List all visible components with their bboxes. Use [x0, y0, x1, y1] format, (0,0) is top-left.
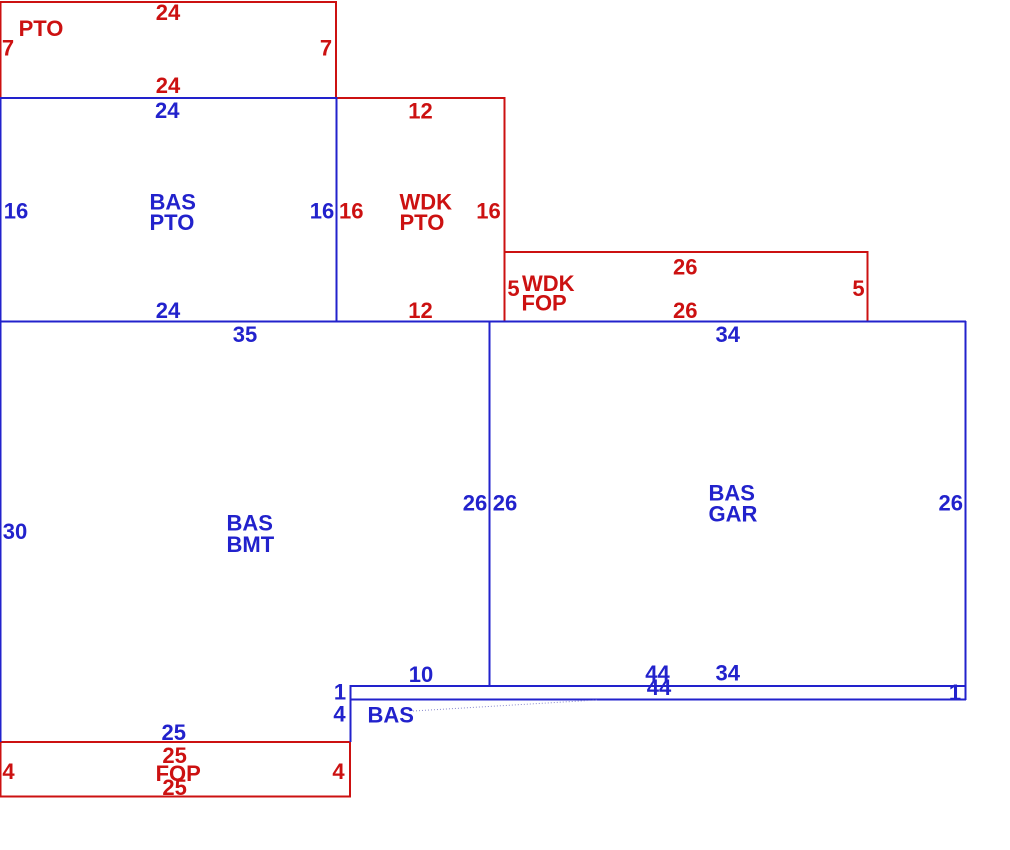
blue outlines	[0, 97, 966, 742]
svg-text:FOP: FOP	[522, 291, 567, 316]
svg-text:PTO: PTO	[400, 210, 445, 235]
svg-text:30: 30	[3, 519, 27, 544]
svg-text:16: 16	[476, 199, 500, 224]
wire sliver top	[350, 685, 966, 687]
svg-text:26: 26	[673, 255, 697, 280]
svg-text:34: 34	[715, 322, 740, 347]
wire BMT/GAR divider	[489, 321, 491, 686]
svg-text:4: 4	[332, 759, 345, 784]
svg-text:7: 7	[320, 36, 332, 61]
svg-text:24: 24	[156, 298, 181, 323]
svg-text:12: 12	[408, 298, 432, 323]
label WDK PTO dims	[339, 99, 501, 324]
svg-text:24: 24	[156, 73, 181, 98]
wire GAR right edge	[965, 321, 967, 700]
svg-text:16: 16	[339, 199, 363, 224]
wire	[1, 742, 351, 797]
svg-text:25: 25	[162, 775, 186, 800]
svg-text:34: 34	[715, 661, 740, 686]
svg-text:7: 7	[2, 36, 14, 61]
wire	[337, 98, 505, 321]
label BAS PTO dims	[4, 98, 334, 323]
wire main horizontal y=321	[0, 321, 966, 323]
wire BAS PTO top	[0, 97, 337, 99]
svg-text:4: 4	[2, 759, 15, 784]
svg-text:25: 25	[162, 720, 186, 745]
wire left edge	[0, 97, 2, 742]
svg-text:24: 24	[155, 98, 180, 123]
wire BAS PTO right	[336, 97, 338, 321]
svg-text:BAS: BAS	[368, 703, 414, 728]
label PTO dims	[2, 0, 332, 98]
svg-text:BMT: BMT	[227, 532, 275, 557]
wire	[505, 252, 868, 321]
area FOP outline (red, bottom-left porch)	[1, 742, 351, 797]
label FOP dims	[2, 743, 345, 800]
area PTO outline (red, top-left patio)	[1, 2, 337, 97]
svg-text:16: 16	[4, 199, 28, 224]
svg-text:44: 44	[647, 675, 672, 700]
svg-text:26: 26	[463, 491, 487, 516]
svg-text:26: 26	[493, 491, 517, 516]
wire sliver bottom	[350, 699, 966, 701]
area WDK FOP outline (red)	[505, 252, 868, 321]
svg-text:24: 24	[156, 0, 181, 25]
wire	[1, 2, 337, 97]
svg-text:35: 35	[233, 322, 257, 347]
label BAS sliver dims	[333, 661, 961, 728]
svg-text:GAR: GAR	[709, 502, 758, 527]
svg-text:5: 5	[852, 276, 864, 301]
svg-text:1: 1	[949, 680, 961, 705]
leader dotted line to BAS sliver	[413, 700, 597, 711]
svg-text:4: 4	[333, 702, 346, 727]
svg-text:26: 26	[673, 298, 697, 323]
svg-text:PTO: PTO	[150, 210, 195, 235]
svg-text:PTO: PTO	[19, 16, 64, 41]
label WDK FOP dims	[507, 255, 864, 324]
svg-text:16: 16	[310, 199, 334, 224]
svg-text:26: 26	[938, 491, 962, 516]
svg-text:5: 5	[507, 276, 519, 301]
label BAS BMT dims	[3, 322, 487, 745]
wire sliver left / BMT notch	[350, 685, 352, 742]
svg-text:10: 10	[409, 662, 433, 687]
svg-text:12: 12	[408, 99, 432, 124]
area WDK PTO outline (red)	[337, 98, 505, 321]
label BAS GAR dims	[493, 322, 963, 686]
